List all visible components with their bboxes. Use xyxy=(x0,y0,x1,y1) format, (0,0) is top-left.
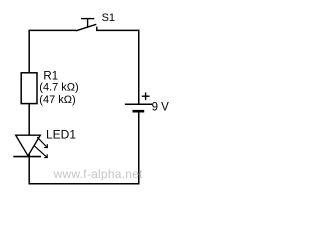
LED1 light arrow 1 shaft xyxy=(37,137,47,147)
switch S1 blade xyxy=(76,24,96,31)
svg-text:(47 kΩ): (47 kΩ) xyxy=(39,94,75,106)
switch S1 right contact stub xyxy=(96,27,98,31)
resistor R1 (box) xyxy=(21,73,37,104)
LED1 light arrow 2 head xyxy=(44,154,47,157)
battery negative plate xyxy=(133,110,145,113)
switch S1 actuator cap xyxy=(81,18,94,20)
LED1 cathode bar xyxy=(13,156,41,158)
battery positive plate xyxy=(125,103,152,105)
wire right vertical top (to battery) xyxy=(138,30,140,104)
LED1 light arrow 2 shaft xyxy=(34,145,48,157)
wire top-right horizontal xyxy=(96,29,139,31)
svg-text:9 V: 9 V xyxy=(152,102,170,114)
LED1 light arrow 1 head xyxy=(44,144,47,148)
switch S1 actuator stem xyxy=(87,18,89,27)
wire bottom horizontal xyxy=(29,183,140,185)
svg-text:(4.7 kΩ): (4.7 kΩ) xyxy=(39,81,78,93)
svg-text:S1: S1 xyxy=(102,12,115,24)
wire left vertical xyxy=(28,30,30,185)
battery plus sign xyxy=(145,92,147,100)
svg-text:LED1: LED1 xyxy=(46,128,76,142)
wire right vertical bottom (battery to bottom) xyxy=(138,111,140,185)
svg-text:www.f-alpha.net: www.f-alpha.net xyxy=(53,167,144,181)
LED1 triangle (anode) xyxy=(16,135,41,156)
wire top-left horizontal xyxy=(29,29,77,31)
